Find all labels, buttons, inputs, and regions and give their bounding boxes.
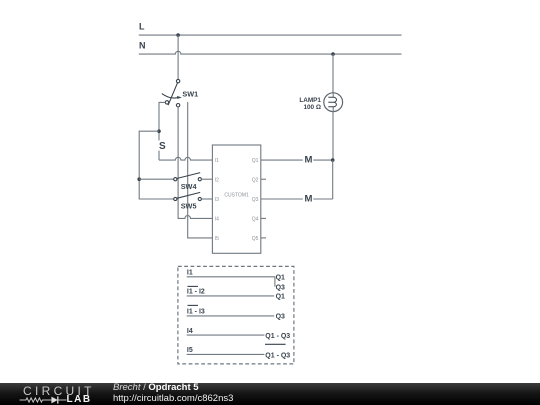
wire N rail with hop over SW1 pole wire [139,51,402,54]
svg-text:Q1 - Q3: Q1 - Q3 [265,333,290,340]
lamp LAMP1 [324,93,343,112]
svg-text:N: N [139,41,146,51]
svg-text:Q1: Q1 [276,294,285,301]
svg-text:Q2: Q2 [252,177,259,183]
wire N to LAMP1 top [332,54,334,93]
wire L rail [139,34,402,36]
row 2 line [187,295,275,297]
svg-text:Q1 - Q3: Q1 - Q3 [265,353,290,360]
wire node S to I1 row [158,151,160,161]
svg-text:I4: I4 [187,328,193,335]
switch SW1 [162,79,182,107]
svg-text:SW5: SW5 [181,202,197,211]
IC U1 CUSTOM1 box [212,145,260,253]
svg-text:I1 - I2: I1 - I2 [187,289,205,296]
wire S branch to SW4/SW5 [139,131,173,199]
footer logo waveform [19,395,69,405]
wire SW4 to I2 [201,178,212,180]
svg-text:CUSTOM1: CUSTOM1 [224,192,249,198]
svg-text:I5: I5 [215,236,219,242]
row 4 line [187,334,265,336]
wire lamp bottom to M rail [332,111,334,160]
svg-text:Q3: Q3 [276,314,285,321]
svg-text:M: M [305,155,313,166]
pin stub Q5 [261,237,266,239]
svg-text:M: M [305,194,313,205]
svg-text:Q3: Q3 [276,284,285,291]
row 5 output overline [265,343,286,345]
pin stub Q4 [261,217,266,219]
junction dot node S [157,129,161,133]
footer logo LAB [67,394,92,405]
row 3 line [187,315,275,317]
row 5 line [187,353,265,355]
svg-text:I4: I4 [215,217,219,223]
svg-text:I1 - I3: I1 - I3 [187,309,205,316]
svg-text:Q4: Q4 [252,217,259,223]
wire SW1 bottom terminal down to I4 row with hop [178,107,212,218]
svg-text:SW1: SW1 [182,89,198,98]
footer logo CIRCUIT [23,384,95,398]
wire M to lamp rail bottom [313,198,332,200]
svg-text:SW4: SW4 [181,182,198,191]
footer title [113,382,199,393]
row 1 line [187,277,275,287]
svg-text:S: S [159,141,166,152]
switch SW5 [174,192,202,200]
svg-text:LAMP1: LAMP1 [299,97,321,104]
svg-text:Q1: Q1 [276,274,285,281]
junction dot on N at lamp feed [331,52,335,56]
row 2 overline [188,285,199,287]
row 3 overline [188,304,199,306]
wire M rail down to Q3 row [332,160,334,199]
svg-text:100 Ω: 100 Ω [303,104,321,111]
truth table dashed box [178,266,294,364]
switch SW4 [174,173,202,181]
wire Q1 to M node [261,159,303,161]
svg-text:I1: I1 [215,158,219,164]
svg-text:L: L [139,22,145,32]
wire to SW4 left [139,178,173,180]
junction dot on L at SW1 feed [176,33,180,37]
svg-text:I3: I3 [215,197,219,203]
svg-text:Q3: Q3 [252,197,259,203]
svg-text:I2: I2 [215,177,219,183]
wire M to lamp rail [313,159,332,161]
svg-text:I1: I1 [187,269,193,276]
svg-text:I5: I5 [187,347,193,354]
footer bar [0,383,540,405]
wire SW5 to I3 [201,198,212,200]
svg-text:Q1: Q1 [252,158,259,164]
pin stub Q2 [261,178,266,180]
junction dot M rail [331,158,335,162]
junction dot SW4 branch [137,177,141,181]
svg-text:Q5: Q5 [252,236,259,242]
wire I1 row with hops [159,157,212,160]
wire L to SW1 pole [177,35,179,79]
wire Q3 to M node [261,198,303,200]
wire SW1 throw to node S [159,102,165,140]
footer url [113,393,233,404]
wire third vertical to I5 row [188,102,213,238]
